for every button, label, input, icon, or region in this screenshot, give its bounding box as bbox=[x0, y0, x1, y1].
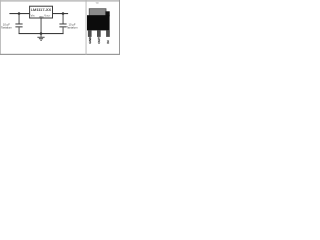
table frame top border bbox=[0, 0, 120, 1]
table frame right border bbox=[119, 0, 120, 55]
wire C2 top lead bbox=[62, 14, 65, 24]
svg-text:IN: IN bbox=[106, 39, 110, 43]
capacitor C1 plates (10 uF Tantalum input) bbox=[15, 23, 22, 26]
package TO-252 tab bbox=[89, 9, 106, 16]
svg-text:LM1117-XX: LM1117-XX bbox=[31, 8, 52, 12]
wire input (left stub of VIN rail) bbox=[9, 13, 29, 14]
wire U1 GND pin lead bbox=[40, 18, 43, 34]
wire ground stem bbox=[40, 34, 43, 37]
package TO-252 body corner block bbox=[105, 11, 109, 16]
package TO-252 body bbox=[87, 15, 110, 30]
svg-text:"W: "W bbox=[95, 1, 99, 5]
node output junction dot bbox=[62, 12, 65, 15]
table frame left border bbox=[0, 0, 2, 55]
wire output (VOUT rail) bbox=[53, 13, 69, 14]
table cell divider bbox=[85, 0, 88, 55]
wire ground rail bbox=[19, 33, 64, 34]
wire C1 top lead bbox=[18, 14, 21, 24]
regulator U1 box bbox=[30, 6, 53, 18]
capacitor C2 plates (10 uF Tantalum output) bbox=[59, 23, 66, 26]
package TO-252 lead 3 bbox=[106, 30, 110, 37]
table frame bottom border bbox=[0, 54, 120, 55]
wire C1 bottom lead bbox=[18, 27, 21, 34]
svg-text:OUT: OUT bbox=[97, 37, 101, 44]
ground symbol bbox=[37, 36, 44, 39]
svg-text:Tantalum: Tantalum bbox=[1, 25, 13, 29]
svg-text:GND: GND bbox=[88, 36, 92, 44]
node ground junction dot bbox=[40, 32, 43, 35]
node input junction dot bbox=[18, 12, 21, 15]
package TO-252 lead 1 bbox=[88, 30, 92, 37]
svg-text:Tantalum: Tantalum bbox=[67, 25, 79, 29]
package TO-252 lead 2 bbox=[97, 30, 101, 37]
svg-text:GND: GND bbox=[39, 16, 44, 18]
wire C2 bottom lead bbox=[62, 27, 65, 34]
